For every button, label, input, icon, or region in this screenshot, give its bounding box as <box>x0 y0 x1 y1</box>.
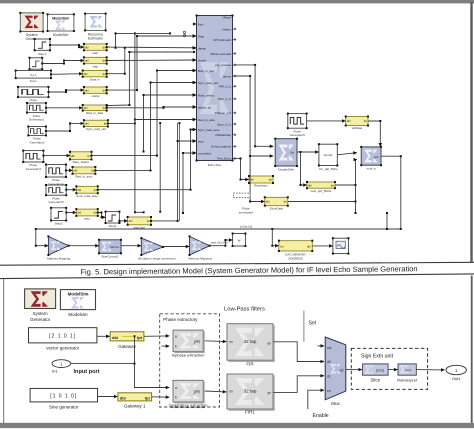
block ModelSim (bottom) <box>60 290 95 317</box>
wire stub to Inphase b <box>162 345 170 347</box>
wire PulseGen4 to Rad_in_auto <box>65 169 73 171</box>
svg-text:1Repe: 1Repe <box>222 16 231 20</box>
svg-text:EchoData: EchoData <box>270 206 284 210</box>
svg-text:dbl: dbl <box>112 335 118 340</box>
svg-text:Enable: Enable <box>313 413 329 419</box>
source Step 1 <box>34 38 51 56</box>
svg-text:dbl: dbl <box>266 200 270 204</box>
wire Gateway to Inphase a <box>134 335 170 337</box>
svg-text:Sign Extn unit: Sign Extn unit <box>361 353 394 359</box>
svg-text:FIR: FIR <box>246 362 254 367</box>
svg-text:Generator1: Generator1 <box>29 118 45 122</box>
wire Test_Echo to Repetition <box>233 157 249 180</box>
svg-text:Sync_load_auto: Sync_load_auto <box>76 194 98 198</box>
gateway Gateway 1 <box>118 393 152 409</box>
svg-text:32 tap: 32 tap <box>244 388 257 393</box>
svg-text:Gateway: Gateway <box>118 344 137 349</box>
gateway auto <box>75 208 99 220</box>
svg-text:Reinterpret: Reinterpret <box>397 378 418 383</box>
svg-text:PRI_C_b: PRI_C_b <box>219 85 232 89</box>
wire start to block in2 <box>106 46 196 48</box>
right border lower <box>471 276 473 424</box>
svg-text:fpt: fpt <box>145 395 151 400</box>
block System Generator (top) <box>19 12 44 41</box>
svg-text:Gateway 1: Gateway 1 <box>124 404 146 409</box>
wire vector to Gateway <box>97 335 110 337</box>
svg-text:fpt: fpt <box>87 154 90 158</box>
svg-text:step: step <box>92 64 98 68</box>
svg-text:yn: yn <box>267 391 271 395</box>
wire pulse gw riser to in11 <box>150 123 196 222</box>
svg-text:dbl: dbl <box>250 178 254 182</box>
svg-text:dbl: dbl <box>85 59 89 63</box>
svg-text:dbl: dbl <box>74 169 78 173</box>
wire Sync_load_auto riser to in10 <box>97 129 196 191</box>
svg-text:d1: d1 <box>327 374 331 378</box>
gateway Sync_load_auto <box>75 185 99 198</box>
svg-text:ModelSim: ModelSim <box>68 292 89 297</box>
svg-text:auto: auto <box>198 139 204 143</box>
wire SineControl to T2 <box>121 245 141 247</box>
svg-text:FIR1: FIR1 <box>245 410 255 415</box>
svg-text:Pridgen_1.5: Pridgen_1.5 <box>215 111 232 115</box>
svg-text:Sync_C_b: Sync_C_b <box>217 122 231 126</box>
wire PulseGen3 to Rate_Select <box>42 155 70 157</box>
svg-text:Step: Step <box>198 34 205 38</box>
svg-text:PRF_C_b: PRF_C_b <box>218 97 232 101</box>
svg-text:Step3: Step3 <box>108 224 116 228</box>
svg-text:Echo Rev: Echo Rev <box>208 163 222 167</box>
svg-text:Out1: Out1 <box>452 376 461 381</box>
svg-text:Estimator: Estimator <box>88 37 104 41</box>
svg-text:datain: datain <box>198 46 207 50</box>
wire DoppleShift to Yor_dat_500 <box>297 151 319 153</box>
wire VelData to mult top <box>368 120 381 147</box>
svg-text:next_2pt_500pt: next_2pt_500pt <box>311 189 332 193</box>
svg-text:mult_a: mult_a <box>367 167 376 171</box>
wire top stub segment <box>115 32 172 34</box>
svg-text:Sine generator: Sine generator <box>49 405 79 410</box>
goto tag box <box>232 233 247 248</box>
svg-text:Inphase extraction: Inphase extraction <box>172 353 205 358</box>
source Pulse Generator5 <box>45 184 67 204</box>
svg-text:Sel: Sel <box>309 321 317 327</box>
svg-text:[1 0 1 0]: [1 0 1 0] <box>50 393 77 399</box>
dashed box Sign Extn unit <box>351 348 427 389</box>
wire DAC to scope <box>313 245 333 247</box>
svg-text:dbl: dbl <box>347 119 351 123</box>
svg-text:Step 1: Step 1 <box>38 52 47 56</box>
svg-text:EchoLocations: EchoLocations <box>211 145 231 149</box>
svg-text:Generator2: Generator2 <box>30 140 46 144</box>
wire sine to Gateway 1 <box>98 396 118 398</box>
wire Data in riser <box>106 47 126 75</box>
svg-text:Address Mapping: Address Mapping <box>47 256 71 260</box>
underline quadrature label <box>171 407 205 409</box>
svg-text:terminated: terminated <box>239 210 254 214</box>
gateway step <box>83 56 108 68</box>
svg-text:sel: sel <box>327 346 332 350</box>
wire riser 183 to in12 <box>182 152 196 214</box>
svg-text:Sync_load_auto: Sync_load_auto <box>198 128 220 132</box>
wire From to Data in <box>50 73 83 75</box>
svg-text:a×b: a×b <box>374 155 379 159</box>
block Yor_dat_500 (white) <box>318 143 338 171</box>
gateway marke <box>83 86 108 98</box>
wire Inphase to FIR <box>205 340 227 343</box>
svg-text:b: b <box>175 345 177 349</box>
svg-text:dbl: dbl <box>77 211 81 215</box>
wire riser 129 <box>106 51 131 107</box>
input port In1 <box>52 360 100 375</box>
svg-text:xn: xn <box>229 340 233 344</box>
svg-text:a: a <box>175 386 177 390</box>
gateway Rad_in_auto <box>72 166 97 178</box>
svg-text:yn: yn <box>267 342 271 346</box>
wire Step2 to auto <box>65 212 76 214</box>
constant sine generator <box>30 388 98 409</box>
wire Yor_dat to mult a <box>338 153 357 155</box>
scope block <box>332 237 350 254</box>
wire Pulse to marke <box>48 89 84 93</box>
svg-text:dbl: dbl <box>307 244 311 248</box>
wire top stub drop <box>115 32 117 48</box>
block FIR <box>227 324 275 367</box>
svg-text:Generator3: Generator3 <box>26 167 42 171</box>
svg-text:xn: xn <box>229 390 233 394</box>
svg-text:dbl: dbl <box>120 395 126 400</box>
gain Bit data range conversion <box>138 237 176 260</box>
block Resource Estimator <box>84 13 107 41</box>
block SineControl1 <box>98 239 122 259</box>
gateway pulse (mid) <box>127 216 152 229</box>
svg-text:fpt: fpt <box>364 119 367 123</box>
wire FIR1 yn to mux d1 <box>273 376 324 393</box>
svg-text:fpt: fpt <box>280 244 283 248</box>
svg-text:Rad_In_Rad: Rad_In_Rad <box>86 111 103 115</box>
wire pre_prosina to DoppleShift a <box>233 64 274 147</box>
wire next_2pt to mult b <box>335 160 357 186</box>
svg-text:Mux: Mux <box>198 22 204 26</box>
svg-text:auto: auto <box>84 217 90 221</box>
svg-text:dbl: dbl <box>85 88 89 92</box>
block Reinterpret <box>397 364 418 383</box>
wire Slice to Reinterpret <box>388 369 397 371</box>
svg-text:fpt: fpt <box>137 335 143 340</box>
block mult_a <box>360 146 382 171</box>
wire Reinterpret to Out1 <box>417 369 445 371</box>
constant vector generator <box>29 328 97 351</box>
svg-text:Generator5: Generator5 <box>49 200 65 204</box>
svg-text:Generator6: Generator6 <box>290 133 306 137</box>
svg-text:VelData: VelData <box>352 126 363 130</box>
wire Rate_Select riser to in5 <box>91 70 197 157</box>
source Pulse Generator3 <box>22 150 44 171</box>
svg-text:Low-Pass filters: Low-Pass filters <box>224 306 265 312</box>
gateway VelData <box>345 116 369 131</box>
svg-text:Bit data in range conversion: Bit data in range conversion <box>138 256 176 260</box>
bottom gray bar <box>0 423 474 428</box>
svg-text:Rad_In_rad: Rad_In_rad <box>198 69 214 73</box>
svg-text:Phase extractory: Phase extractory <box>163 317 198 322</box>
caption strip bottom line <box>0 274 474 279</box>
svg-text:[2 1 0 1]: [2 1 0 1] <box>49 334 76 340</box>
svg-text:dbl: dbl <box>77 188 81 192</box>
svg-text:Rad_in_auto: Rad_in_auto <box>198 118 215 122</box>
svg-text:(ab): (ab) <box>194 390 200 394</box>
wire attens to DoppleShift b and EchoData <box>233 75 274 203</box>
right border upper <box>470 2 472 263</box>
svg-text:d3: d3 <box>340 368 344 372</box>
svg-text:Generator: Generator <box>30 317 51 322</box>
svg-text:Rate_select: Rate_select <box>198 93 214 97</box>
wire riser 143 to in9 <box>143 94 197 153</box>
svg-text:marke: marke <box>91 94 100 98</box>
source Pulse Generator2 <box>27 126 47 145</box>
svg-text:W: W <box>238 239 241 243</box>
svg-text:Repetition: Repetition <box>254 184 268 188</box>
block System Generator (bottom) <box>25 289 56 322</box>
wire Gateway1 to Quadrature b <box>152 396 170 398</box>
svg-text:Pulse: Pulse <box>29 98 37 102</box>
svg-text:fpt: fpt <box>104 122 107 126</box>
wire stub v387 <box>386 212 388 230</box>
svg-text:System: System <box>33 311 48 316</box>
block Slice <box>363 364 389 383</box>
svg-text:From: From <box>30 79 38 83</box>
terminator dotted block <box>233 193 253 214</box>
svg-text:Rad_in_auto: Rad_in_auto <box>75 174 92 178</box>
source Step2 <box>50 207 67 226</box>
block DoppleShift <box>274 138 298 172</box>
svg-text:0 e 1: 0 e 1 <box>30 73 37 77</box>
wire mult out down to bus <box>381 155 402 230</box>
gateway Repetition <box>248 175 274 188</box>
svg-text:hw·rkd: hw·rkd <box>324 153 333 157</box>
svg-text:fpt: fpt <box>91 169 94 173</box>
wire sel stub into mux <box>318 345 325 347</box>
svg-text:DoppleShift: DoppleShift <box>278 168 294 172</box>
mux block <box>325 337 346 406</box>
svg-text:SinCos: SinCos <box>110 245 120 249</box>
gain Memory Mapping <box>188 235 212 260</box>
svg-text:en: en <box>327 389 331 393</box>
svg-text:controlled: controlled <box>198 151 211 155</box>
svg-text:fpt: fpt <box>103 88 106 92</box>
svg-text:Yor_dat_500p: Yor_dat_500p <box>319 167 338 171</box>
svg-text:Sync_load_rad: Sync_load_rad <box>198 81 218 85</box>
source Pulse Generator (right) <box>287 113 308 138</box>
svg-text:ADDRESS: ADDRESS <box>288 256 303 260</box>
block ModelSim (top) <box>47 13 75 37</box>
wire Sel line <box>304 311 316 342</box>
svg-text:xValue: xValue <box>222 27 231 31</box>
top gray bar <box>0 0 474 3</box>
wire marke riser to in1 <box>106 35 196 91</box>
svg-text:fpt: fpt <box>331 183 334 187</box>
wire Rad_in_auto riser to in6 <box>94 82 196 172</box>
svg-text:fpt: fpt <box>269 178 272 182</box>
svg-text:Memory Mapping: Memory Mapping <box>188 256 212 260</box>
svg-text:Slice: Slice <box>370 378 380 383</box>
svg-text:ModelSim: ModelSim <box>52 16 69 20</box>
gateway EchoData <box>264 196 289 210</box>
gateway Gateway (bottom) <box>110 332 144 349</box>
block Echo Generator (large central) <box>193 15 236 167</box>
svg-text:fpt: fpt <box>284 200 287 204</box>
wire riser pair 179 <box>178 122 180 221</box>
svg-text:a: a <box>175 334 177 338</box>
block Inphase extraction <box>172 330 205 357</box>
source Pulse Generator4 <box>45 164 67 187</box>
svg-text:SineControl1: SineControl1 <box>101 255 119 259</box>
svg-text:fpt: fpt <box>94 211 97 215</box>
svg-text:b: b <box>175 396 177 400</box>
source Pulse Generator1 <box>26 102 47 122</box>
svg-text:real_Out_Ref: real_Out_Ref <box>211 241 228 245</box>
svg-text:start: start <box>92 51 98 55</box>
gateway Rate_Select <box>69 151 93 164</box>
block Quadrature extraction <box>169 380 208 407</box>
svg-text:stroke: stroke <box>198 58 207 62</box>
svg-text:1970-feb-add: 1970-feb-add <box>213 38 231 42</box>
svg-text:fpt: fpt <box>94 188 97 192</box>
svg-text:fpt: fpt <box>103 72 106 76</box>
svg-text:force: force <box>405 368 412 372</box>
wire FIR yn to mux d0 <box>273 342 324 362</box>
wire In1 to branch <box>71 363 135 365</box>
svg-text:Quadrature extraction: Quadrature extraction <box>169 403 208 408</box>
svg-text:fpt: fpt <box>103 45 106 49</box>
svg-text:dbl: dbl <box>308 183 312 187</box>
svg-text:d0: d0 <box>327 360 331 364</box>
svg-text:Data in: Data in <box>90 77 100 81</box>
svg-text:Test_Echo: Test_Echo <box>217 157 231 161</box>
wire branch down to Quadrature a <box>134 336 170 387</box>
svg-text:[a:b]: [a:b] <box>376 368 383 372</box>
wire Quadrature to FIR1 <box>205 390 227 393</box>
wire auto to Step3 <box>97 212 106 219</box>
svg-text:Mux: Mux <box>331 401 340 406</box>
svg-text:Sync_load_rad: Sync_load_rad <box>86 127 106 131</box>
wire Rad_In_Rad to in8 <box>106 106 196 109</box>
wire step to block in4 <box>106 60 196 62</box>
svg-text:(ab): (ab) <box>194 339 200 343</box>
gain Address Mapping <box>47 235 71 260</box>
svg-text:Rate_Select: Rate_Select <box>73 160 90 164</box>
dashed box Phase extraction <box>160 314 220 407</box>
svg-text:Sel: Sel <box>290 151 294 155</box>
svg-text:fpt: fpt <box>147 219 150 223</box>
wire PulseGen2 to Sync_load_rad <box>45 122 84 132</box>
svg-text:fpt: fpt <box>103 59 106 63</box>
unconnected ports <box>183 31 185 33</box>
svg-text:dbl: dbl <box>71 154 75 158</box>
wire riser 160 <box>159 122 161 213</box>
left border lower <box>3 279 4 423</box>
wire EchoData out <box>288 201 357 203</box>
wire T3 to goto tag <box>210 239 233 247</box>
svg-text:attens: attens <box>223 74 232 78</box>
wire Step3 to pulse gw <box>118 220 127 222</box>
gateway next_2pt_500pt <box>306 181 336 193</box>
svg-text:PRadioFlag: PRadioFlag <box>215 133 231 137</box>
wire Step1 to start <box>49 44 84 48</box>
wire T2 to T3 <box>163 246 189 248</box>
svg-text:Whole-end-add: Whole-end-add <box>210 52 231 56</box>
wire mux out to Slice <box>346 369 362 371</box>
wire stub below mult <box>355 185 357 214</box>
source Pulse <box>17 86 50 102</box>
wire feedback bus y229 <box>35 228 401 247</box>
wire bus drop to DAC <box>271 229 278 247</box>
wire PulseGen1 to Rad_In_Rad <box>45 107 83 109</box>
source Step3 <box>105 211 121 228</box>
source constant wide <box>15 70 52 84</box>
wire PulseGen to VelData <box>307 120 346 122</box>
svg-text:attach_as: attach_as <box>198 105 212 109</box>
svg-text:dbl: dbl <box>84 72 88 76</box>
gateway start <box>83 43 108 55</box>
wire Enable to mux en <box>308 390 329 419</box>
wire Step to step <box>41 60 84 65</box>
svg-text:ModelSim: ModelSim <box>53 33 69 37</box>
svg-text:dbl: dbl <box>85 45 89 49</box>
gateway Data in <box>82 70 108 82</box>
svg-text:Input port: Input port <box>74 369 100 375</box>
wire PulseGen5 to Sync_load_auto <box>65 189 76 191</box>
svg-text:Modelsim: Modelsim <box>68 312 88 317</box>
svg-text:32 tap: 32 tap <box>244 339 257 344</box>
wire branch to next_2pt gateway <box>300 152 307 186</box>
svg-text:vector generator: vector generator <box>46 345 79 350</box>
wire T1 to SineControl <box>69 245 99 247</box>
svg-text:fpt: fpt <box>103 106 106 110</box>
svg-text:dbl: dbl <box>84 106 88 110</box>
svg-text:dbl: dbl <box>129 219 133 223</box>
svg-text:Step2: Step2 <box>55 222 63 226</box>
svg-text:dbl: dbl <box>85 122 89 126</box>
wire bus vertical <box>134 32 145 213</box>
svg-text:a Out In1: a Out In1 <box>240 225 253 229</box>
svg-text:pre_prosina: pre_prosina <box>215 63 231 67</box>
output port Out1 <box>446 365 466 381</box>
caption strip top line <box>0 262 474 265</box>
gateway DAC MEMORY ADDRESS <box>278 240 313 261</box>
wire parallel stub <box>128 51 195 53</box>
gateway Sync_load_rad <box>83 119 109 131</box>
wire Sync_load_rad to in7 <box>107 119 196 125</box>
svg-text:In1: In1 <box>52 369 58 374</box>
block FIR1 <box>227 374 275 415</box>
source Step <box>29 57 44 74</box>
gateway Rad_In_Rad <box>82 104 108 115</box>
